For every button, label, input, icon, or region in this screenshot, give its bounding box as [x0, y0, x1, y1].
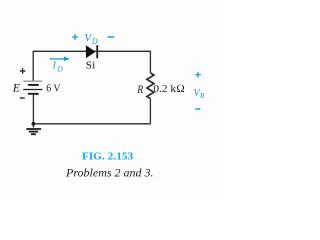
- svg-text:0.2 kΩ: 0.2 kΩ: [153, 83, 184, 95]
- svg-text:R: R: [136, 82, 143, 96]
- svg-text:Problems 2 and 3.: Problems 2 and 3.: [65, 166, 154, 180]
- svg-text:6 V: 6 V: [46, 83, 60, 95]
- svg-text:Si: Si: [86, 59, 96, 71]
- svg-text:D: D: [56, 64, 63, 73]
- svg-text:FIG. 2.153: FIG. 2.153: [82, 150, 134, 162]
- svg-text:R: R: [199, 91, 205, 100]
- svg-text:E: E: [12, 81, 21, 95]
- svg-text:D: D: [91, 37, 98, 46]
- svg-text:I: I: [52, 61, 57, 72]
